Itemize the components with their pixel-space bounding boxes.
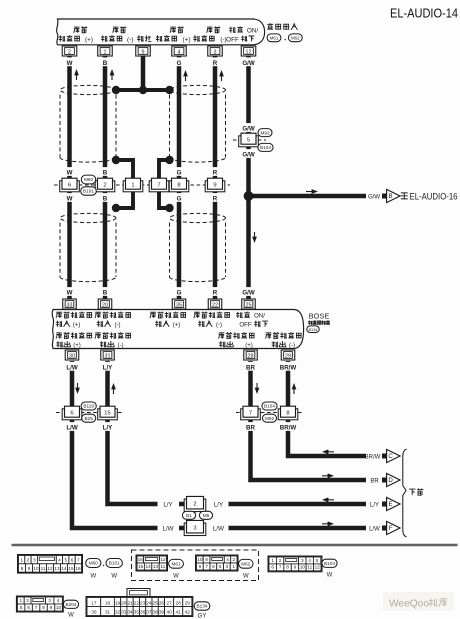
svg-text:M92: M92 [265, 416, 275, 421]
svg-text:7: 7 [35, 605, 38, 610]
wire label W [67, 193, 73, 202]
BOSE amp pin 20 [98, 299, 112, 309]
wire label L/Y [101, 362, 115, 371]
svg-text:11: 11 [307, 565, 312, 570]
wire label B [102, 167, 108, 176]
svg-text:2: 2 [193, 501, 196, 507]
BOSE amp pin 30 [65, 350, 79, 360]
svg-text:G: G [177, 196, 182, 203]
svg-text:1: 1 [271, 558, 274, 563]
svg-text:14: 14 [61, 566, 67, 571]
svg-text:8: 8 [205, 557, 208, 562]
separator dot [103, 565, 104, 566]
wire label G/W [242, 287, 256, 296]
wire label BR/W [279, 422, 296, 431]
wire label B [102, 57, 108, 66]
svg-text:8: 8 [177, 182, 180, 188]
svg-text:8: 8 [42, 605, 45, 610]
svg-text:G: G [177, 170, 182, 177]
svg-text:25: 25 [246, 302, 252, 308]
wire BR/W front-right speaker output (-) [288, 361, 366, 456]
svg-text:10: 10 [300, 565, 306, 570]
audio unit pin 12 [241, 46, 256, 56]
svg-text:3: 3 [48, 598, 51, 603]
wire label G [176, 57, 182, 66]
flag D [382, 473, 400, 486]
svg-text:B: B [103, 290, 108, 297]
wire L/Y front-left speaker output (-) [108, 361, 158, 504]
connector interface dashed line (M60/B101 row) [54, 184, 230, 186]
connector face B104 (12-pin) [268, 556, 322, 572]
inline connector pin 2 (M60/B101) [95, 178, 115, 192]
svg-text:25: 25 [153, 600, 159, 605]
connector M92 oval [263, 414, 277, 422]
svg-text:M61: M61 [171, 562, 181, 567]
svg-text:L/Y: L/Y [370, 502, 379, 508]
svg-text:W: W [90, 574, 96, 580]
svg-text:OFF: OFF [226, 37, 239, 44]
svg-text:L/Y: L/Y [103, 364, 113, 371]
wire label G [176, 193, 182, 202]
svg-text:(-): (-) [118, 343, 124, 349]
wire G/W amp ON/OFF signal [246, 56, 251, 305]
BOSE label: front-left speaker input (+) [56, 312, 92, 329]
svg-text:10: 10 [56, 605, 62, 610]
arrow down on L/W [77, 383, 79, 391]
svg-text:30: 30 [69, 353, 75, 359]
svg-text:20: 20 [121, 600, 127, 605]
svg-text:G/W: G/W [368, 195, 380, 201]
svg-text:15: 15 [138, 564, 144, 569]
audio unit label: ground 接地 [137, 35, 151, 41]
svg-text:7: 7 [205, 564, 208, 569]
svg-text:2: 2 [26, 598, 29, 603]
svg-text:M5: M5 [203, 513, 210, 518]
svg-text:39: 39 [159, 609, 165, 614]
wire L/Y (after connector 2) [229, 502, 367, 507]
audio unit pin 1 [98, 46, 113, 56]
svg-text:8: 8 [21, 566, 24, 571]
connector interface dashed line (M92/B104 G/W) [233, 139, 266, 141]
svg-text:F: F [389, 525, 393, 532]
connector B204 oval [63, 600, 78, 618]
svg-text:BR: BR [370, 478, 379, 484]
svg-text:G: G [177, 60, 182, 67]
arrow left on L/Y run [325, 499, 334, 501]
wire label R [212, 167, 218, 176]
svg-text:1: 1 [131, 182, 134, 188]
svg-text:7: 7 [279, 565, 282, 570]
svg-text:B1: B1 [186, 513, 192, 518]
svg-text:4: 4 [178, 49, 181, 55]
svg-text:L/W: L/W [162, 525, 173, 532]
svg-text:31: 31 [105, 353, 111, 359]
svg-text:8: 8 [286, 565, 289, 570]
svg-text:R: R [213, 290, 218, 297]
svg-text:22: 22 [134, 600, 140, 605]
svg-text:2: 2 [279, 558, 282, 563]
svg-text:B25: B25 [85, 416, 94, 421]
svg-text:13: 13 [153, 564, 159, 569]
arrow left on BR/W run [325, 451, 334, 453]
svg-text:L/W: L/W [66, 425, 77, 432]
audio unit pin 4 [172, 46, 187, 56]
svg-text:37: 37 [146, 609, 152, 614]
svg-text:3: 3 [193, 525, 196, 531]
svg-text:L/Y: L/Y [163, 501, 172, 508]
svg-text:EL-AUDIO-16: EL-AUDIO-16 [410, 192, 458, 202]
audio unit label: amp ON/OFF signal [226, 26, 258, 43]
arrow up on L/Y [113, 387, 115, 395]
BOSE amp pin 22 [208, 299, 222, 309]
svg-text:6: 6 [271, 565, 274, 570]
svg-text:G/W: G/W [242, 290, 255, 297]
arrow down on G/W [254, 232, 256, 240]
svg-text:EL-AUDIO-14: EL-AUDIO-14 [390, 5, 458, 20]
svg-text:W: W [67, 60, 73, 67]
svg-text:35: 35 [134, 609, 140, 614]
svg-text:E: E [389, 501, 393, 508]
text 至 EL-AUDIO-16 [401, 192, 458, 202]
svg-text:27: 27 [167, 600, 173, 605]
svg-text:4: 4 [308, 558, 311, 563]
svg-text:B: B [103, 170, 108, 177]
audio unit name 音响单元 [267, 23, 297, 30]
shielded cable (upper right, G+R pair) [170, 85, 226, 162]
svg-text:5: 5 [219, 564, 222, 569]
svg-text:D: D [388, 477, 393, 484]
BOSE amp pin 35 [172, 299, 186, 309]
svg-text:B104: B104 [324, 561, 335, 566]
svg-text:29: 29 [285, 353, 291, 359]
svg-text:1: 1 [19, 598, 22, 603]
svg-text:(+): (+) [85, 37, 93, 44]
svg-text:33: 33 [67, 302, 73, 308]
text 下页 next page [409, 488, 424, 495]
svg-text:L/W: L/W [66, 364, 77, 371]
svg-text:33: 33 [121, 609, 127, 614]
junction dot lower-left drain [112, 204, 120, 212]
svg-text:38: 38 [153, 609, 159, 614]
svg-text:4: 4 [226, 557, 229, 562]
BOSE amp pin 29 [281, 350, 295, 360]
svg-text:8: 8 [286, 410, 289, 416]
connector B104 oval [262, 402, 277, 410]
connector pin 3 (B1/M5) [184, 520, 206, 535]
svg-text:B119: B119 [83, 404, 94, 409]
svg-text:2: 2 [103, 182, 106, 188]
shielded cable (lower left, W+B pair) [60, 208, 116, 282]
svg-text:G/W: G/W [242, 152, 255, 159]
junction dot G/W [244, 191, 254, 201]
svg-text:14: 14 [145, 564, 151, 569]
svg-text:M92: M92 [260, 130, 270, 135]
svg-text:R: R [213, 170, 218, 177]
svg-text:ON/: ON/ [254, 313, 265, 320]
wire label G/W [242, 57, 256, 66]
svg-text:12: 12 [160, 557, 166, 562]
connector pin 2 (B1/M5) [184, 496, 206, 511]
svg-text:3: 3 [33, 558, 36, 563]
shielded cable (upper left, W+B pair) [60, 85, 116, 162]
svg-text:BOSE: BOSE [309, 312, 330, 321]
svg-text:3: 3 [226, 564, 229, 569]
svg-text:5: 5 [64, 558, 67, 563]
svg-text:10: 10 [33, 566, 39, 571]
wire stub at connector 2 [179, 502, 195, 507]
svg-text:10: 10 [197, 557, 203, 562]
inline connector pin 7 (M60/B101) [149, 178, 169, 192]
svg-text:22: 22 [212, 302, 218, 308]
shield drain upper-right elbow [159, 160, 170, 180]
audio unit pin 9 [136, 46, 151, 56]
svg-text:B101: B101 [83, 189, 94, 194]
flag F [382, 521, 400, 534]
wire label R [212, 193, 218, 202]
svg-text:1: 1 [104, 49, 107, 55]
svg-text:13: 13 [54, 566, 60, 571]
svg-text:R: R [213, 196, 218, 203]
svg-text:19: 19 [115, 600, 121, 605]
svg-text:15: 15 [68, 566, 74, 571]
connector B134 oval [194, 602, 210, 619]
flag C [382, 449, 400, 462]
svg-text:7: 7 [157, 182, 160, 188]
connector face B204 (10-pin) [17, 596, 64, 612]
svg-text:23: 23 [140, 600, 146, 605]
svg-text:L/Y: L/Y [103, 425, 113, 432]
connector M62 oval [288, 34, 302, 42]
svg-text:R: R [213, 60, 218, 67]
svg-text:2: 2 [233, 557, 236, 562]
svg-text:12: 12 [47, 566, 53, 571]
svg-text:M62: M62 [241, 562, 251, 567]
svg-text:M61: M61 [270, 36, 279, 41]
svg-text:M62: M62 [291, 36, 300, 41]
junction dot upper-right drain [165, 156, 173, 164]
svg-text:(+): (+) [245, 343, 253, 349]
BOSE label: front-right speaker input (-) [194, 312, 230, 329]
svg-text:BR/W: BR/W [365, 454, 381, 460]
svg-text:W: W [67, 290, 73, 297]
svg-text:(-): (-) [127, 37, 133, 44]
svg-text:36: 36 [140, 609, 146, 614]
svg-text:11: 11 [41, 566, 46, 571]
svg-text:42: 42 [185, 609, 191, 614]
connector B25 oval [82, 414, 96, 422]
watermark WeeQoo [383, 592, 454, 611]
svg-text:B: B [389, 193, 393, 200]
junction dot upper-left drain [112, 156, 120, 164]
wire label G [176, 287, 182, 296]
svg-text:3: 3 [301, 558, 304, 563]
svg-text:B104: B104 [260, 145, 271, 150]
wire label L/Y [101, 422, 115, 431]
BOSE label: front-right speaker input (+) [150, 312, 186, 329]
svg-text:(+): (+) [183, 37, 191, 44]
svg-text:GY: GY [198, 614, 207, 619]
arrow up on G [185, 74, 187, 82]
audio unit pin 2 [62, 46, 77, 56]
svg-text:35: 35 [176, 302, 182, 308]
svg-text:12: 12 [315, 565, 321, 570]
connector M61 oval [267, 34, 281, 42]
arrow down on BR [256, 383, 258, 391]
svg-text:B134: B134 [197, 604, 208, 609]
audio unit pin 3 [208, 46, 223, 56]
connector M60 oval [81, 175, 95, 184]
flag B to EL-AUDIO-16 [382, 189, 400, 202]
inline connector pin 6 (B119/B25) [62, 406, 82, 420]
svg-text:W: W [67, 170, 73, 177]
svg-text:(+): (+) [73, 323, 81, 329]
svg-text:5: 5 [20, 605, 23, 610]
BOSE amp pin 31 [101, 350, 115, 360]
junction dot lower-right drain [165, 204, 173, 212]
separator dot [285, 39, 286, 40]
wire label BR [246, 422, 256, 431]
arrow up on BR/W [293, 387, 295, 395]
connector M61 oval [169, 559, 184, 579]
svg-text:9: 9 [199, 564, 202, 569]
svg-text:9: 9 [28, 566, 31, 571]
svg-text:ON/: ON/ [247, 28, 259, 35]
junction dot left shield [112, 86, 120, 94]
junction dot ground wire [139, 86, 147, 94]
svg-text:4: 4 [58, 558, 61, 563]
svg-text:6: 6 [212, 564, 215, 569]
svg-text:32: 32 [115, 609, 121, 614]
arrow up on W [76, 73, 78, 81]
svg-text:21: 21 [127, 600, 133, 605]
shielded cable (lower right, G+R pair) [170, 208, 226, 282]
svg-text:6: 6 [71, 558, 74, 563]
inline connector pin 1 (M60/B101) [123, 178, 143, 192]
svg-text:B204: B204 [66, 602, 77, 607]
wire label L/W [65, 422, 79, 431]
connector B101 oval [81, 187, 97, 195]
svg-text:5: 5 [316, 558, 319, 563]
arrow right on L/W run [322, 523, 331, 525]
inline connector pin 6 (M60/B101) [60, 178, 80, 192]
svg-text:29: 29 [185, 600, 191, 605]
BOSE amp pin 33 [63, 299, 77, 309]
svg-text:30: 30 [91, 609, 97, 614]
svg-text:26: 26 [159, 600, 165, 605]
svg-text:C: C [388, 453, 393, 460]
wire label R [212, 57, 218, 66]
svg-text:3: 3 [214, 49, 217, 55]
arrow right on G/W branch [306, 191, 315, 193]
svg-text:7: 7 [249, 410, 252, 416]
inline connector pin 5 (M92/B104) [239, 133, 259, 147]
inline connector pin 7 (B104/M92) [241, 406, 261, 420]
wire BR front-right speaker output (+) [251, 361, 367, 480]
connector face M62 [196, 555, 238, 571]
svg-text:1: 1 [232, 564, 235, 569]
shield drain lower-right elbow [159, 190, 170, 208]
wire label B [102, 193, 108, 202]
audio unit component box [57, 19, 265, 45]
svg-text:W: W [111, 574, 117, 580]
wire B ground from pin 9 [141, 56, 146, 91]
wire label W [67, 167, 73, 176]
connector interface dashed link (B1/M5) [194, 510, 196, 521]
wire G front-right speaker (+) [177, 56, 182, 301]
svg-text:5: 5 [247, 137, 250, 143]
svg-text:B: B [103, 60, 108, 67]
svg-text:9: 9 [142, 49, 145, 55]
svg-text:15: 15 [104, 410, 110, 416]
wire label G [176, 167, 182, 176]
connector B104 oval [322, 559, 337, 578]
audio unit label: front-left speaker (+) [59, 26, 93, 43]
svg-text:20: 20 [102, 302, 108, 308]
wire label BR [246, 362, 256, 371]
wire G/W branch to EL-AUDIO-16 [249, 194, 367, 199]
svg-text:12: 12 [246, 49, 252, 55]
svg-text:2: 2 [27, 558, 30, 563]
svg-text:24: 24 [146, 600, 152, 605]
wire label BR/W [279, 362, 296, 371]
connector M62 oval [239, 559, 253, 579]
shield drain lower-left elbow [116, 190, 133, 208]
audio unit label: front-left speaker (-) [101, 26, 133, 43]
wire label W [67, 57, 73, 66]
svg-text:G/W: G/W [242, 60, 255, 67]
svg-text:18: 18 [105, 600, 111, 605]
svg-text:31: 31 [105, 609, 111, 614]
connector interface dashed line (B104/M92 row) [236, 412, 303, 414]
svg-text:(-): (-) [115, 323, 121, 329]
connector M60 oval [86, 559, 101, 580]
svg-text:16: 16 [138, 557, 144, 562]
svg-text:B104: B104 [264, 404, 275, 409]
svg-text:B134: B134 [308, 327, 318, 332]
connector face B134 (BOSE amp, 26-pin) [86, 589, 193, 617]
wire R front-right speaker (-) [213, 56, 218, 301]
connector face M61 [136, 555, 167, 571]
svg-text:B101: B101 [109, 561, 120, 566]
wire label L/W [65, 362, 79, 371]
ground-to-shield bar [116, 88, 170, 92]
svg-text:6: 6 [68, 182, 71, 188]
svg-text:4: 4 [57, 598, 60, 603]
wire label G/W [242, 123, 256, 132]
svg-text:M60: M60 [89, 561, 99, 566]
arrow right on BR run [322, 475, 331, 477]
svg-text:7: 7 [77, 558, 80, 563]
arrow up on R [221, 74, 223, 82]
connector interface dashed line (B119/B25 row) [56, 412, 124, 414]
connector B1 oval [182, 511, 195, 519]
audio unit label: front-right speaker (+) [156, 26, 191, 43]
footer separator line [12, 544, 458, 547]
BOSE label: amp ON/OFF signal [236, 312, 268, 329]
svg-text:(+): (+) [73, 343, 81, 349]
junction dot right shield [165, 86, 173, 94]
connector M5 oval [199, 511, 212, 519]
svg-text:34: 34 [127, 609, 133, 614]
svg-text:(-): (-) [289, 343, 295, 349]
svg-text:BR/W: BR/W [280, 425, 297, 432]
svg-text:W: W [68, 613, 74, 619]
svg-text:6: 6 [27, 605, 30, 610]
svg-text:28: 28 [248, 353, 254, 359]
connector M92 oval [258, 129, 272, 137]
svg-text:1: 1 [20, 558, 23, 563]
svg-text:G/W: G/W [242, 126, 255, 133]
